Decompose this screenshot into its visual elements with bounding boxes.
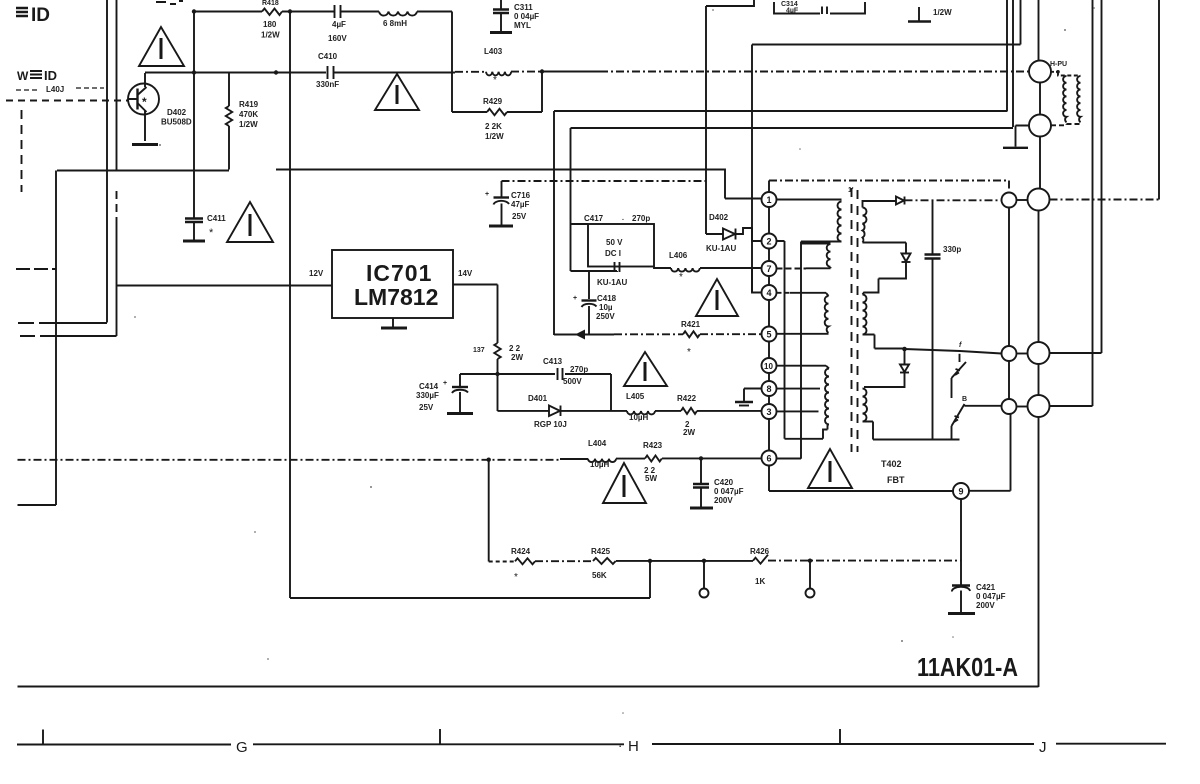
transformer T402 winding A — [838, 202, 842, 242]
wire to S3 top — [864, 373, 905, 388]
svg-text:L403: L403 — [484, 47, 503, 56]
grid ruler tick 3 — [839, 729, 841, 744]
svg-text:+: + — [573, 295, 577, 302]
wire R429 loop line y112 — [452, 111, 487, 113]
svg-text:10µH: 10µH — [590, 460, 610, 469]
wire R424 line dash — [489, 561, 515, 563]
wire pad link f — [1017, 353, 1028, 355]
transformer T402 winding D — [825, 369, 829, 425]
svg-text:4: 4 — [767, 288, 772, 298]
junction dot x488 y459 — [487, 458, 491, 462]
capacitor C410 — [316, 52, 339, 89]
svg-text:R426: R426 — [750, 547, 770, 556]
wire R424-R425 — [535, 560, 593, 562]
svg-text:2 2: 2 2 — [509, 344, 521, 353]
pin 9 — [953, 483, 969, 499]
inductor L406 — [669, 251, 700, 283]
diode D401 — [528, 394, 567, 429]
svg-text:5W: 5W — [645, 474, 657, 483]
spark gap f — [952, 354, 967, 398]
svg-text:D402: D402 — [167, 108, 187, 117]
wire pin2 vertical bottom corner — [785, 425, 828, 439]
wire big bus B down to border — [1038, 417, 1040, 687]
svg-text:7: 7 — [767, 264, 772, 274]
wire pin9 right to B circle chain — [969, 415, 1011, 491]
grid ruler tick 1 — [42, 730, 44, 745]
wire ground-return horizontal y170 left segment — [57, 170, 229, 172]
svg-text:B: B — [962, 396, 967, 403]
svg-text:9: 9 — [959, 487, 964, 497]
svg-text:C421: C421 — [976, 583, 996, 592]
svg-text:C414: C414 — [419, 382, 439, 391]
connector pad small f — [1002, 346, 1017, 361]
svg-text:C410: C410 — [318, 52, 338, 61]
svg-text:25V: 25V — [419, 403, 434, 412]
svg-text:*: * — [209, 227, 214, 239]
wire S2 bottom step — [863, 335, 905, 349]
wire pin10 to winding D — [777, 366, 830, 369]
wire pin5 line dashdot — [614, 333, 683, 335]
junction dot x704 — [702, 559, 706, 563]
wire pin8 tap — [777, 388, 821, 390]
junction dot x810 — [808, 559, 812, 563]
wire f line to circles — [905, 349, 1002, 354]
capacitor C311 — [490, 0, 539, 33]
warning triangle 5 — [624, 352, 667, 386]
svg-text:D401: D401 — [528, 394, 548, 403]
svg-text:C411: C411 — [207, 214, 226, 223]
svg-text:200V: 200V — [976, 601, 995, 610]
svg-text:W: W — [17, 69, 29, 83]
wire nested rail y128 — [571, 0, 1014, 271]
svg-text:R418: R418 — [262, 0, 279, 7]
resistor R429 — [483, 97, 507, 141]
ground of H-PU — [1016, 126, 1030, 147]
capacitor C716 — [485, 181, 531, 226]
wire top-edge cut fragments — [156, 1, 183, 4]
svg-text:1/2W: 1/2W — [485, 132, 504, 141]
node W-EID connector label — [17, 68, 57, 83]
capacitor C314 bracket — [774, 1, 865, 15]
wire 12V feed line — [117, 285, 333, 287]
wire D401 line right — [561, 410, 628, 412]
wire top rail y11 segment2 — [341, 11, 380, 13]
test point circle 1 — [703, 561, 705, 589]
wire vertical x1159 — [1158, 0, 1160, 200]
wire f line right corner up — [1050, 0, 1102, 353]
wire S1 loop to S2 top — [863, 262, 907, 295]
wire small pad chain vertical — [1008, 208, 1010, 400]
svg-text:RGP 10J: RGP 10J — [534, 420, 567, 429]
transformer core dashed lines — [851, 188, 853, 452]
capacitor C413 — [543, 357, 588, 386]
svg-text:*: * — [493, 75, 497, 86]
wire pin3 tap — [777, 410, 819, 412]
svg-text:6: 6 — [767, 454, 772, 464]
svg-text:.: . — [622, 215, 624, 222]
svg-text:C418: C418 — [597, 294, 617, 303]
wire pin5 line start with arrow — [554, 330, 614, 340]
wire R424 drop vertical — [488, 460, 490, 562]
svg-text:10µH: 10µH — [629, 413, 649, 422]
svg-text:C716: C716 — [511, 191, 531, 200]
wire pin6 line — [662, 457, 762, 459]
ground symbol with 1/2W — [908, 7, 952, 22]
svg-text:L404: L404 — [588, 439, 607, 448]
transformer T402 winding C — [825, 296, 829, 333]
resistor R421 — [681, 320, 701, 358]
inductor L405 — [626, 392, 655, 422]
junction dot f-line — [902, 347, 907, 352]
inductor L403 — [484, 47, 511, 86]
wire D401 line left — [498, 410, 550, 412]
wire pin6 down to pin9 — [769, 466, 953, 492]
capacitor 4uF 160V — [328, 5, 347, 43]
svg-text:2 2K: 2 2K — [485, 122, 502, 131]
node EID connector label — [16, 5, 50, 26]
warning triangle 7 — [808, 449, 852, 488]
svg-text:·: · — [618, 738, 622, 753]
svg-text:12V: 12V — [309, 269, 324, 278]
svg-text:330nF: 330nF — [316, 80, 339, 89]
wire bus H-PU to pad1 — [1039, 137, 1041, 189]
svg-text:0 047µF: 0 047µF — [714, 487, 744, 496]
svg-text:1/2W: 1/2W — [933, 8, 952, 17]
svg-text:5: 5 — [767, 330, 772, 340]
svg-text:330µF: 330µF — [416, 391, 439, 400]
deflection yoke coil — [1051, 70, 1081, 125]
wire vertical bus x116 upper — [116, 0, 118, 170]
wire winding B bottom to pin7 — [777, 268, 807, 270]
svg-text:330p: 330p — [943, 245, 961, 254]
junction dot x497 y374 — [495, 372, 499, 376]
wire top rail corner down x452 — [417, 12, 452, 113]
wire pad link y199 — [1017, 199, 1028, 201]
resistor R424 — [511, 547, 535, 583]
wire pad link B — [1017, 406, 1028, 408]
wire horizontal y336 to left — [20, 335, 117, 337]
svg-text:*: * — [687, 347, 691, 358]
svg-text:1/2W: 1/2W — [239, 120, 258, 129]
spark gap B — [952, 396, 1002, 440]
svg-text:J: J — [1039, 739, 1047, 756]
svg-text:R429: R429 — [483, 97, 503, 106]
wire pin1 to winding A — [777, 199, 842, 201]
svg-text:8: 8 — [767, 384, 772, 394]
junction dot x290 y11 — [288, 9, 292, 13]
svg-text:2W: 2W — [511, 353, 523, 362]
svg-text:0 04µF: 0 04µF — [514, 12, 539, 21]
svg-text:56K: 56K — [592, 571, 607, 580]
svg-text:FBT: FBT — [887, 475, 905, 485]
svg-text:160V: 160V — [328, 34, 347, 43]
svg-text:25V: 25V — [512, 212, 527, 221]
svg-text:H: H — [628, 738, 639, 755]
pin 10 — [762, 358, 777, 373]
svg-text:D402: D402 — [709, 213, 729, 222]
wire C417 bottom to C418 — [571, 271, 618, 299]
wire winding C bottom to pin5 — [777, 333, 829, 335]
wire R429 to corner x542 — [507, 72, 542, 113]
svg-text:C413: C413 — [543, 357, 563, 366]
warning triangle 4 — [696, 279, 738, 316]
inductor 6.8mH — [379, 12, 417, 29]
pin 8 — [762, 381, 777, 396]
wire lower return y598 — [290, 562, 650, 599]
resistor 180 1/2W — [261, 0, 282, 40]
wire big bus f to B — [1038, 364, 1040, 395]
wire pin7 line from box — [654, 267, 671, 269]
wire main line y71 to H-PU — [542, 71, 600, 73]
pin 7 — [762, 261, 777, 276]
warning triangle 1 — [139, 27, 184, 66]
svg-text:ID: ID — [31, 5, 50, 26]
wire main line dashdot before L403 — [455, 71, 486, 73]
wire pin6 right elbow — [777, 458, 802, 460]
wire main horizontal y72 after C410 — [334, 72, 456, 74]
svg-text:H-PU: H-PU — [1050, 61, 1067, 68]
wire R423 line — [616, 458, 645, 460]
svg-text:10: 10 — [764, 362, 773, 371]
resistor R426 — [750, 547, 770, 586]
svg-text:4µF: 4µF — [332, 20, 346, 29]
wire output down to D401 line — [497, 359, 499, 411]
ground of IC701 — [392, 318, 394, 327]
svg-text:50 V: 50 V — [606, 238, 623, 247]
wire L404 line solid — [560, 458, 588, 460]
connector pad big y199 — [1028, 189, 1050, 211]
diode secondary mid — [902, 254, 911, 263]
resistor R422 — [677, 394, 697, 437]
wire left stub y269 — [16, 268, 56, 270]
capacitor C414 — [416, 380, 473, 414]
svg-text:*: * — [679, 272, 683, 283]
svg-text:KU-1AU: KU-1AU — [597, 278, 627, 287]
svg-text:14V: 14V — [458, 269, 473, 278]
svg-text:C311: C311 — [514, 3, 533, 12]
warning triangle 3 — [227, 202, 273, 242]
wire bus between H-PU circles — [1039, 83, 1041, 115]
scan speckle noise — [134, 7, 1095, 714]
wire winding A bottom to pin2 tap junction — [801, 242, 842, 459]
diode D402 horizontal output — [706, 213, 762, 253]
wire x752 vertical from y44 — [751, 45, 753, 293]
wire C716 feed line y181 — [502, 180, 707, 182]
wire f-line drop with diode — [904, 349, 906, 364]
wire y199 line to right corner — [1050, 199, 1160, 201]
capacitor 330p — [925, 245, 962, 259]
ground of D402 — [132, 143, 158, 146]
capacitor C417 box — [571, 214, 655, 287]
resistor R425 — [591, 547, 616, 580]
warning triangle 2 — [375, 74, 419, 110]
wire pin4 elbow from pin7 line — [752, 268, 762, 293]
wire winding B top link — [801, 243, 831, 245]
inductor L404 — [588, 439, 616, 469]
transformer secondary winding S2 — [863, 295, 867, 335]
wire top rail y11 — [194, 11, 262, 13]
pin 4 — [762, 285, 777, 300]
wire bus above H-PU — [1038, 0, 1040, 61]
connector pad big B — [1028, 395, 1050, 417]
junction dot x650 — [648, 559, 652, 563]
connector pad small y199 — [1002, 193, 1017, 208]
wire vertical bus x290 — [289, 12, 291, 599]
wire page border bottom — [18, 686, 1039, 688]
svg-text:3: 3 — [767, 407, 772, 417]
test point circle 2 — [809, 561, 811, 589]
capacitor C418 — [573, 294, 617, 335]
svg-text:L405: L405 — [626, 392, 645, 401]
svg-text:1/2W: 1/2W — [261, 31, 280, 40]
op-amp IC701 LM7812 regulator box — [332, 250, 453, 318]
svg-text:LM7812: LM7812 — [354, 284, 438, 310]
wire main horizontal y72 — [145, 72, 326, 74]
wire diode line to circles — [905, 199, 1002, 201]
wire vertical x56 — [55, 171, 57, 506]
svg-text:0 047µF: 0 047µF — [976, 592, 1006, 601]
svg-text:4µF: 4µF — [786, 8, 799, 15]
wire vertical x194 top feed — [193, 12, 195, 219]
svg-text:2: 2 — [767, 237, 772, 247]
wire pin9 down to C421 — [960, 499, 962, 585]
wire pin3 line to pin — [697, 410, 762, 412]
pin 3 — [762, 404, 777, 419]
wire pin1 top elbow y181 — [768, 181, 770, 193]
svg-text:+: + — [443, 380, 447, 387]
svg-text:470K: 470K — [239, 110, 258, 119]
svg-text:180: 180 — [263, 20, 277, 29]
wire pin column links — [768, 207, 770, 451]
svg-text:2W: 2W — [683, 428, 695, 437]
svg-text:270p: 270p — [570, 365, 588, 374]
pin 6 — [762, 451, 777, 466]
svg-text:R424: R424 — [511, 547, 531, 556]
svg-text:MYL: MYL — [514, 21, 531, 30]
svg-text:R421: R421 — [681, 320, 701, 329]
wire top rail y11 segment — [282, 11, 334, 13]
grid ruler segment 1 — [17, 744, 231, 746]
wire 14V output — [453, 285, 498, 344]
svg-text:R419: R419 — [239, 100, 259, 109]
svg-text:*: * — [514, 572, 518, 583]
svg-text:C420: C420 — [714, 478, 734, 487]
wire top Z at x706 — [706, 0, 754, 234]
resistor R419 — [226, 73, 259, 170]
svg-text:200V: 200V — [714, 496, 733, 505]
wire horizontal y323 to left — [18, 322, 107, 324]
svg-text:ID: ID — [44, 68, 57, 83]
connector pad small B — [1002, 399, 1017, 414]
svg-text:L406: L406 — [669, 251, 688, 260]
svg-text:R423: R423 — [643, 441, 663, 450]
svg-text:1: 1 — [767, 195, 772, 205]
junction dot L403 out — [540, 69, 544, 73]
warning triangle 6 — [603, 463, 646, 503]
pin 2 — [762, 234, 777, 249]
svg-text:C417: C417 — [584, 214, 604, 223]
pin 5 — [762, 327, 777, 342]
svg-text:11AK01-A: 11AK01-A — [917, 652, 1018, 682]
grid ruler segment 4 — [1056, 743, 1166, 745]
wire pin4 to winding C — [777, 292, 791, 294]
junction dot C420 — [699, 456, 703, 460]
svg-text:DC I: DC I — [605, 249, 621, 258]
wire main line dashdot after L403 — [511, 71, 542, 73]
svg-text:1K: 1K — [755, 577, 765, 586]
wire S1 bottom loop with diode — [863, 243, 907, 254]
svg-text:G: G — [236, 739, 248, 756]
svg-text:6 8mH: 6 8mH — [383, 19, 407, 28]
svg-text:R425: R425 — [591, 547, 611, 556]
capacitor C420 — [690, 458, 744, 508]
svg-text:1': 1' — [848, 187, 854, 194]
svg-text:500V: 500V — [563, 377, 582, 386]
resistor 2.2 2W vertical — [473, 343, 523, 362]
svg-text:IC701: IC701 — [366, 260, 432, 286]
transformer secondary winding S1 — [863, 201, 897, 243]
svg-text:10µ: 10µ — [599, 303, 613, 312]
svg-text:*: * — [142, 95, 147, 109]
wire R425 to R426 — [616, 560, 753, 562]
diode secondary top — [896, 197, 905, 205]
wire big bus pad1 to f — [1038, 211, 1040, 343]
wire corner to left at y505 — [18, 504, 57, 506]
wire y44 rail to corner x1020 — [752, 0, 1021, 45]
svg-text:L40J: L40J — [46, 85, 64, 94]
svg-text:T402: T402 — [881, 459, 902, 469]
wire pin3 line mid — [655, 410, 681, 412]
grid ruler segment 3 — [652, 743, 1034, 745]
pin 1 — [762, 192, 777, 207]
connector H-PU top circle — [1029, 61, 1051, 83]
wire pin5 line to pin — [700, 333, 762, 335]
wire dashed vertical left margin — [21, 110, 23, 192]
wire B line right corner up — [1050, 0, 1093, 406]
junction dot x194 y72 — [192, 70, 196, 74]
transformer T402 winding B — [827, 244, 831, 267]
svg-text:270p: 270p — [632, 214, 650, 223]
wire pin8 ground elbow — [744, 389, 762, 402]
wire pin7 line to pin — [700, 267, 762, 269]
wire dashed base line to D402 — [6, 100, 128, 102]
connector pad big f — [1028, 342, 1050, 364]
svg-text:137: 137 — [473, 347, 485, 354]
svg-text:250V: 250V — [596, 312, 615, 321]
wire R426 to C421 — [768, 560, 961, 562]
wire S3 bottom line — [863, 422, 960, 440]
svg-text:+: + — [485, 191, 489, 198]
wire ground-return y170 right segment — [276, 169, 762, 199]
wire L404 line dashdot from left — [18, 459, 561, 461]
wire 330p branch vertical — [932, 200, 934, 439]
svg-text:BU508D: BU508D — [161, 118, 192, 127]
wire vertical bus x107 — [106, 0, 108, 323]
wire nested rail y111 — [554, 0, 1007, 335]
transistor D402 BU508D — [128, 73, 159, 141]
connector H-PU lower circle — [1029, 115, 1051, 137]
wire C413 loop top — [460, 374, 611, 411]
svg-text:47µF: 47µF — [511, 200, 530, 209]
svg-text:KU-1AU: KU-1AU — [706, 244, 736, 253]
capacitor C421 — [948, 583, 1006, 614]
junction dot x276 y72 — [274, 70, 278, 74]
grid ruler segment 2 — [253, 743, 624, 745]
diode secondary low — [900, 365, 909, 373]
wire vertical bus x116 lower with gap — [116, 191, 118, 218]
junction dot x194 y11 — [192, 9, 196, 13]
resistor R423 — [643, 441, 663, 483]
